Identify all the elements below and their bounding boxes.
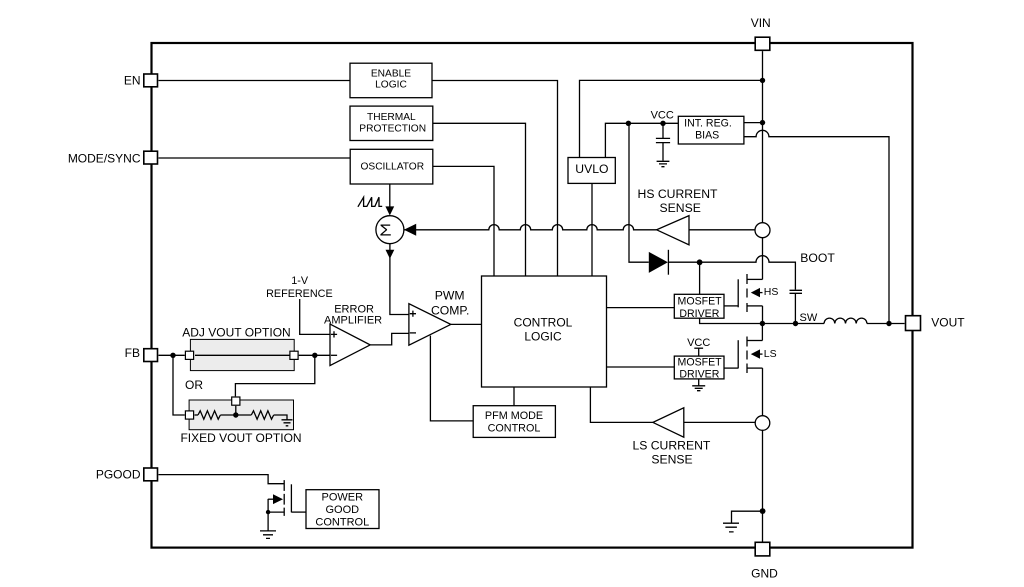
wire diode cathode to boot node [668, 261, 699, 263]
wire boot node to BOOT capacitor (hops over VIN line) [699, 256, 795, 290]
wire ADJ right terminal to error amp - input [299, 354, 330, 356]
svg-text:PGOOD: PGOOD [96, 468, 141, 482]
svg-text:OSCILLATOR: OSCILLATOR [360, 162, 424, 173]
wire PFM MODE CONTROL to PWM comp [430, 336, 473, 421]
svg-text:GOOD: GOOD [325, 504, 359, 516]
ground for PGOOD MOSFET [260, 531, 276, 539]
junction dot FB node A [170, 353, 175, 358]
wire INT. REG. BIAS to VIN line [744, 122, 763, 124]
wire sigma input from HS current sense (hops over 5 verticals) [405, 225, 657, 230]
svg-text:POWER: POWER [322, 491, 364, 503]
junction dot SW node [760, 321, 765, 326]
svg-text:THERMAL: THERMAL [367, 112, 416, 123]
pin VIN [755, 37, 770, 50]
block PFM MODE CONTROL [473, 406, 555, 438]
svg-text:ADJ VOUT OPTION: ADJ VOUT OPTION [182, 326, 290, 340]
ground near GND pin [723, 523, 739, 532]
svg-text:PFM MODE: PFM MODE [485, 410, 543, 422]
svg-text:FB: FB [125, 346, 140, 360]
svg-text:HS CURRENT: HS CURRENT [638, 187, 718, 201]
pin PGOOD [144, 468, 158, 481]
block OSCILLATOR [350, 149, 433, 184]
svg-text:REFERENCE: REFERENCE [266, 288, 333, 300]
gray box FIXED VOUT OPTION [189, 400, 293, 430]
wire HS driver output to HS gate [724, 305, 738, 307]
wire boot node down to HS driver [699, 262, 701, 294]
svg-text:Σ: Σ [379, 222, 391, 239]
HS MOSFET source stub [747, 305, 763, 307]
svg-text:COMP.: COMP. [431, 303, 469, 317]
wire SW node down to LS drain [761, 324, 763, 341]
PGOOD MOSFET body stub and arrow [268, 498, 273, 500]
HS MOSFET channel segments [746, 274, 748, 312]
svg-text:MOSFET: MOSFET [678, 295, 723, 307]
resistor R2 [251, 411, 273, 419]
block ENABLE LOGIC [350, 63, 432, 97]
wire inductor to VOUT pin [867, 323, 905, 325]
PGOOD MOSFET channel segments [283, 480, 285, 516]
svg-text:MODE/SYNC: MODE/SYNC [68, 152, 141, 166]
junction dot boot cap at SW [793, 321, 798, 326]
svg-text:HS: HS [764, 286, 779, 298]
wire LS sense circle down to GND pin [762, 430, 764, 541]
boot capacitor C-BOOT [790, 290, 803, 293]
svg-text:CONTROL: CONTROL [488, 423, 541, 435]
junction dot VIN-UVLO [760, 78, 765, 83]
svg-text:FIXED VOUT OPTION: FIXED VOUT OPTION [180, 431, 301, 445]
svg-text:SW: SW [800, 312, 818, 324]
arrowhead into sigma top [385, 206, 394, 215]
junction dot VCC-diode riser [626, 121, 631, 126]
svg-text:LOGIC: LOGIC [375, 80, 407, 91]
wire EN to ENABLE LOGIC [159, 80, 351, 82]
wire OSCILLATOR to CONTROL LOGIC [433, 166, 494, 276]
wire FB pin to node A [159, 354, 185, 356]
svg-text:DRIVER: DRIVER [679, 308, 719, 320]
HS current sense circle [755, 223, 770, 238]
pin MODE/SYNC [144, 151, 158, 164]
sawtooth waveform symbol [358, 197, 382, 207]
svg-text:CONTROL: CONTROL [514, 315, 573, 329]
ground inside fixed option [282, 420, 293, 426]
boot capacitor C-BOOT bottom wire [794, 294, 796, 324]
LS MOSFET source stub [747, 367, 763, 369]
wire internal ground stub to GND line [732, 511, 763, 522]
wire CONTROL LOGIC down to PFM MODE CONTROL [513, 387, 515, 406]
PWM comp plus marker [410, 311, 416, 317]
terminal ADJ right [290, 351, 298, 359]
terminal FIXED left [185, 411, 193, 419]
terminal FIXED top [232, 397, 240, 405]
wire THERMAL PROTECTION to CONTROL LOGIC [433, 123, 526, 276]
svg-text:MOSFET: MOSFET [678, 356, 723, 368]
block MOSFET DRIVER (LS) [674, 356, 724, 379]
junction dot GND internal [760, 508, 766, 514]
arrowhead into sigma right [404, 224, 416, 236]
wire VCC label tick to LS driver [698, 348, 700, 356]
pin GND [755, 542, 770, 556]
error amp minus marker [331, 354, 337, 356]
HS MOSFET drain stub [747, 278, 763, 280]
block MOSFET DRIVER (HS) [674, 294, 724, 318]
junction dot VIN-BIAS [760, 120, 765, 125]
svg-text:DRIVER: DRIVER [679, 369, 719, 381]
wire ENABLE LOGIC to CONTROL LOGIC [432, 81, 558, 277]
svg-text:GND: GND [751, 567, 778, 581]
pin VOUT [906, 316, 921, 331]
wire error amp output step to PWM comp - input [370, 333, 409, 345]
pin FB [144, 349, 158, 362]
wire VCC node to diode anode [629, 123, 649, 262]
inductor L1 [824, 318, 867, 323]
PGOOD MOSFET gate bar [290, 484, 292, 512]
HS MOSFET body stub and arrow [760, 292, 763, 294]
wire fixed option internal left [195, 414, 199, 416]
wire HS sense triangle to circle [689, 229, 755, 231]
wire CONTROL LOGIC to LS current sense [590, 387, 653, 422]
wire OSCILLATOR down to sigma [389, 184, 391, 207]
svg-text:LOGIC: LOGIC [524, 330, 562, 344]
LS MOSFET drain stub [747, 340, 762, 342]
PGOOD MOSFET source stub [268, 511, 284, 513]
LS MOSFET body stub and arrow [760, 353, 763, 355]
wire HS sense circle to HS drain [762, 238, 764, 280]
junction dot R1-R2 [233, 412, 238, 417]
junction dot VCC capacitor [660, 121, 665, 126]
arrowhead on sigma output [386, 250, 395, 259]
wire VIN pin down to HS sense circle [762, 51, 764, 223]
wire MODE/SYNC to OSCILLATOR [159, 157, 351, 159]
wire HS source down to SW node [762, 306, 764, 324]
ground for VCC capacitor [657, 161, 670, 166]
wire PGOOD MOSFET gate to POWER GOOD CONTROL [291, 511, 306, 513]
resistor R1 [198, 411, 220, 419]
junction dot diode-driver [697, 259, 703, 265]
block INT. REG. BIAS [678, 116, 744, 144]
svg-text:EN: EN [124, 74, 141, 88]
error amp plus marker [331, 331, 337, 337]
svg-text:PWM: PWM [435, 289, 465, 303]
wire UVLO to VIN net [580, 80, 763, 157]
svg-text:VOUT: VOUT [931, 316, 965, 330]
terminal ADJ left [185, 351, 193, 359]
svg-text:SENSE: SENSE [651, 452, 692, 466]
block UVLO [568, 158, 615, 184]
svg-text:LS CURRENT: LS CURRENT [632, 439, 710, 453]
block CONTROL LOGIC [482, 276, 607, 387]
block THERMAL PROTECTION [350, 106, 433, 140]
wire node A down to fixed option left terminal [173, 355, 185, 415]
LS current sense amplifier [653, 408, 684, 437]
svg-text:OR: OR [185, 378, 203, 392]
svg-text:BOOT: BOOT [800, 251, 835, 265]
svg-text:AMPLIFIER: AMPLIFIER [324, 314, 382, 326]
error amplifier U-EA [330, 324, 370, 366]
junction dot node B error amp input [312, 353, 317, 358]
sigma summing node [376, 216, 404, 244]
IC outline [152, 43, 913, 548]
wire through ADJ option [195, 354, 290, 356]
wire HS driver bottom to SW node [700, 318, 763, 323]
svg-text:BIAS: BIAS [695, 130, 719, 142]
svg-text:PROTECTION: PROTECTION [359, 124, 426, 135]
svg-text:CONTROL: CONTROL [315, 516, 369, 528]
wire PGOOD pin to pulldown MOSFET drain [159, 475, 285, 484]
svg-text:ENABLE: ENABLE [371, 69, 411, 80]
wire INT. REG. BIAS to VOUT node (hops over VIN line) [744, 130, 889, 323]
wire PWM comp output to CONTROL LOGIC [451, 323, 482, 325]
wire CONTROL LOGIC to LS mosfet driver [607, 366, 675, 368]
block POWER GOOD CONTROL [306, 490, 379, 529]
LS MOSFET gate bar [737, 340, 739, 368]
wire through ADJ option box [194, 354, 289, 356]
svg-text:LS: LS [764, 348, 777, 360]
svg-text:VCC: VCC [687, 337, 710, 349]
wire sigma output to PWM comp + input [390, 243, 409, 314]
ground for LS mosfet driver [692, 379, 705, 391]
svg-text:1-V: 1-V [291, 275, 309, 287]
LS MOSFET channel segments [746, 337, 748, 374]
HS current sense amplifier [657, 216, 689, 245]
svg-text:SENSE: SENSE [660, 201, 701, 215]
boot diode D1 [649, 252, 668, 273]
wire LS driver output to LS gate [724, 367, 738, 369]
VCC decoupling capacitor C-VCC [656, 123, 670, 160]
PWM comp minus marker [410, 332, 416, 334]
wire CONTROL LOGIC to HS mosfet driver [607, 307, 675, 309]
wire R2 to internal ground [274, 415, 287, 420]
wire LS sense triangle to circle [684, 421, 756, 423]
gray box ADJ VOUT OPTION [190, 339, 294, 370]
junction dot PGOOD source [266, 510, 270, 514]
wire PGOOD MOSFET source to ground [267, 499, 269, 531]
wire UVLO to CONTROL LOGIC [591, 183, 593, 276]
wire LS source down to LS sense circle [762, 368, 764, 416]
boot diode cathode bar [667, 250, 669, 275]
svg-text:INT. REG.: INT. REG. [684, 118, 732, 130]
wire 1-V reference to error amp + input [300, 299, 330, 334]
wire node B down to fixed option top terminal [235, 355, 314, 396]
junction dot inductor-VOUT-bias [886, 321, 891, 326]
wire SW node to VOUT pin [762, 323, 824, 325]
LS current sense circle [755, 416, 770, 431]
svg-text:VCC: VCC [651, 110, 674, 122]
wire junction up to top terminal [235, 406, 237, 415]
svg-text:VIN: VIN [751, 16, 771, 30]
wire R1 to junction [220, 414, 251, 416]
pin EN [144, 74, 158, 87]
VCC tick bar for LS driver [694, 347, 703, 349]
svg-text:UVLO: UVLO [575, 162, 608, 176]
wire UVLO to VCC net [605, 123, 678, 157]
PWM comparator U-PWM [409, 304, 451, 346]
HS MOSFET gate bar [737, 279, 739, 307]
